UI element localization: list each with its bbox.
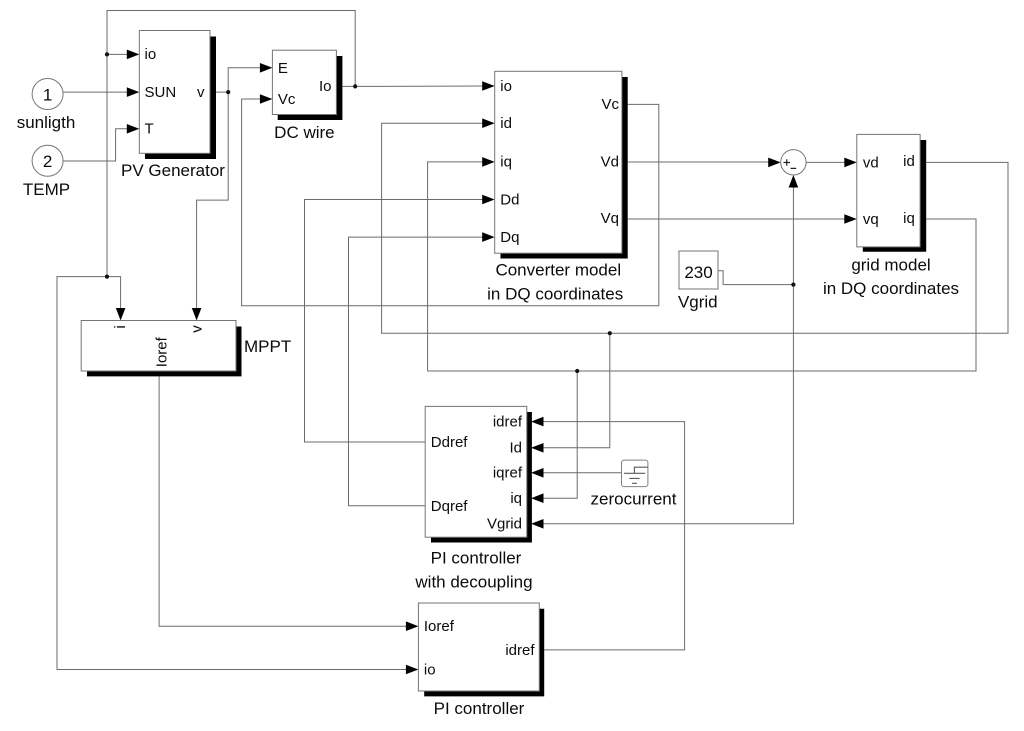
svg-text:DC wire: DC wire: [274, 123, 334, 142]
wire io net: vertical down left side: [106, 54, 108, 276]
arrowhead into PV io: [127, 50, 140, 60]
wire io net: branch jog to MPPT i input: [107, 277, 121, 310]
label PI controller (decoupling): [431, 549, 522, 568]
wire iq feedback: grid iq output around to Converter iq input: [428, 162, 976, 371]
svg-text:iq: iq: [510, 490, 522, 507]
arrowhead into PI controller io: [406, 665, 419, 675]
svg-text:PI controller: PI controller: [431, 549, 522, 568]
label Converter model: [495, 261, 621, 280]
svg-text:idref: idref: [493, 413, 523, 430]
wire v net: junction up to DC wire E input: [228, 68, 261, 92]
arrowhead into Converter Dd: [482, 195, 495, 205]
arrowhead into grid vd: [844, 158, 857, 168]
wire sunlight: inport 1 to PV SUN input: [63, 91, 128, 93]
junction io net at PV io: [105, 52, 109, 56]
svg-text:Vgrid: Vgrid: [487, 516, 522, 533]
svg-text:zerocurrent: zerocurrent: [591, 489, 677, 508]
svg-text:1: 1: [43, 85, 52, 104]
junction id feedback branch: [608, 331, 612, 335]
svg-text:SUN: SUN: [145, 84, 177, 101]
arrowhead into DC wire Vc: [260, 94, 273, 104]
svg-text:Dqref: Dqref: [431, 498, 469, 515]
wire id feedback: grid id output around to Converter id input: [382, 123, 1008, 333]
label DC wire: [274, 123, 334, 142]
wire io net: junction up over top to PV Generator io input: [107, 11, 355, 87]
label in DQ coordinates (grid): [823, 279, 959, 298]
arrowhead into MPPT v: [192, 308, 202, 321]
svg-text:Vd: Vd: [601, 153, 619, 170]
wire io net: branch left and down to PI controller io input: [57, 277, 410, 670]
svg-text:with decoupling: with decoupling: [414, 573, 532, 592]
wire id feedback branch: junction down to PI decoupling Id input: [542, 333, 610, 448]
inport 2 TEMP: [32, 145, 63, 176]
svg-text:io: io: [424, 661, 436, 678]
wire Vgrid net: junction down to PI decoupling Vgrid input: [542, 285, 793, 524]
wire idref net: PI controller idref output up to PI decoupling idref input: [542, 422, 685, 650]
svg-text:vd: vd: [863, 155, 879, 172]
junction Vgrid net: [791, 283, 795, 287]
wire io net: DC wire Io output to junction: [342, 85, 355, 87]
block constant 230: [679, 251, 718, 289]
svg-text:vq: vq: [863, 211, 879, 228]
label sunligth: [17, 113, 76, 132]
svg-text:Vc: Vc: [601, 96, 619, 113]
label PI controller (bottom): [434, 699, 525, 718]
svg-text:Vq: Vq: [601, 210, 619, 227]
wire Vq: Converter Vq output to grid model vq input: [628, 218, 846, 220]
svg-text:io: io: [500, 78, 512, 95]
label in DQ coordinates (converter): [487, 285, 623, 304]
svg-text:in DQ coordinates: in DQ coordinates: [487, 285, 623, 304]
svg-text:grid model: grid model: [851, 256, 930, 275]
wire Vd: Converter Vd output to sum input: [628, 161, 769, 163]
wire Vgrid net: 230 constant to junction: [718, 271, 793, 285]
svg-text:Ioref: Ioref: [424, 618, 455, 635]
arrowhead into DC wire E: [260, 63, 273, 73]
svg-text:TEMP: TEMP: [23, 180, 70, 199]
svg-text:id: id: [903, 153, 915, 170]
svg-text:sunligth: sunligth: [17, 113, 76, 132]
arrowhead into PI decoupling Id: [531, 443, 544, 453]
wire v net: junction down with jog to MPPT v input: [197, 92, 229, 310]
wire Ioref: MPPT Ioref output down to PI controller Ioref input: [159, 376, 410, 626]
svg-text:id: id: [500, 115, 512, 132]
junction v net at PV output: [226, 90, 230, 94]
junction iq feedback branch: [575, 369, 579, 373]
svg-text:Vgrid: Vgrid: [678, 293, 718, 312]
label PV Generator: [121, 161, 225, 180]
arrowhead into PI decoupling idref: [531, 417, 544, 427]
wire zerocurrent to PI decoupling iqref input: [542, 472, 622, 474]
svg-text:v: v: [189, 325, 206, 333]
arrowhead into grid vq: [844, 214, 857, 224]
wire Vgrid net: junction up to sum minus input: [792, 182, 794, 285]
svg-text:Converter model: Converter model: [495, 261, 621, 280]
arrowhead into sum left input: [768, 158, 781, 168]
label TEMP: [23, 180, 70, 199]
svg-text:Id: Id: [509, 440, 522, 457]
svg-text:230: 230: [684, 263, 712, 282]
block PV Generator: [139, 31, 216, 160]
svg-text:i: i: [112, 325, 129, 328]
svg-text:Ioref: Ioref: [154, 336, 171, 367]
svg-text:Io: Io: [319, 78, 332, 95]
svg-text:Vc: Vc: [278, 91, 296, 108]
sum block: [781, 150, 806, 175]
arrowhead into PI decoupling iqref: [531, 468, 544, 478]
wire iq feedback branch: junction down to PI decoupling iq input: [542, 371, 577, 498]
block grid model in DQ coordinates: [857, 134, 926, 251]
svg-text:iq: iq: [500, 154, 512, 171]
wire Ddref: PI decoupling Ddref output up to Converter Dd input: [305, 200, 488, 443]
svg-text:MPPT: MPPT: [244, 337, 291, 356]
arrowhead into PV T: [127, 124, 140, 134]
svg-text:iqref: iqref: [493, 465, 523, 482]
svg-text:PI controller: PI controller: [434, 699, 525, 718]
wire v net: PV v output to junction: [210, 91, 228, 93]
svg-text:Ddref: Ddref: [431, 434, 469, 451]
arrowhead into PV SUN: [127, 87, 140, 97]
wire sum output to grid model vd input: [806, 161, 846, 163]
block PI controller: [418, 603, 544, 696]
wire io net: arrow stem into PV io: [107, 53, 128, 55]
label with decoupling: [414, 573, 532, 592]
block MPPT: [81, 321, 241, 377]
svg-text:2: 2: [43, 152, 52, 171]
arrowhead into Converter id: [482, 118, 495, 128]
junction io net at DC wire output: [353, 84, 357, 88]
label MPPT: [244, 337, 291, 356]
wire io net: junction to Converter io input: [355, 85, 487, 87]
wire Vc feedback: Converter Vc output down and around to DC wire Vc input: [242, 99, 659, 306]
svg-text:iq: iq: [903, 210, 915, 227]
svg-text:in DQ coordinates: in DQ coordinates: [823, 279, 959, 298]
svg-text:T: T: [145, 121, 154, 138]
block Converter model in DQ coordinates: [495, 71, 628, 258]
svg-text:Dq: Dq: [500, 229, 519, 246]
svg-text:v: v: [197, 84, 205, 101]
svg-text:idref: idref: [505, 642, 535, 659]
label Vgrid: [678, 293, 718, 312]
junction io net split left: [105, 275, 109, 279]
label zerocurrent: [591, 489, 677, 508]
block PI controller with decoupling: [425, 406, 532, 542]
svg-text:PV Generator: PV Generator: [121, 161, 225, 180]
arrowhead into MPPT i: [116, 308, 126, 321]
block zerocurrent ground: [622, 460, 648, 487]
arrowhead into PI controller Ioref: [406, 621, 419, 631]
arrowhead into PI decoupling iq: [531, 493, 544, 503]
svg-text:E: E: [278, 60, 288, 77]
svg-text:Dd: Dd: [500, 191, 519, 208]
label grid model: [851, 256, 930, 275]
arrowhead into Converter iq: [482, 157, 495, 167]
inport 1 sunligth: [32, 79, 63, 110]
arrowhead into sum bottom input: [789, 175, 799, 188]
block DC wire: [272, 50, 342, 120]
wire Dqref: PI decoupling Dqref output up to Converter Dq input: [349, 237, 488, 506]
arrowhead into Converter io: [482, 81, 495, 91]
wire temp: inport 2 to PV T input: [63, 129, 128, 161]
svg-text:io: io: [145, 46, 157, 63]
arrowhead into PI decoupling Vgrid: [531, 519, 544, 529]
arrowhead into Converter Dq: [482, 232, 495, 242]
